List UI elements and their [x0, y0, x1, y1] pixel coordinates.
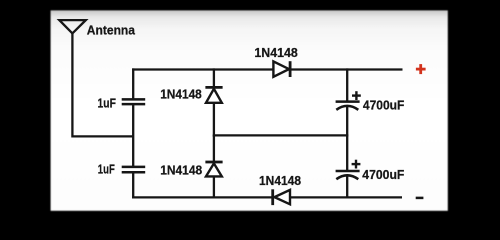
svg-text:1uF: 1uF: [98, 161, 115, 176]
capacitor C4 4700uF (polarized): [336, 160, 361, 180]
svg-text:1N4148: 1N4148: [254, 45, 297, 60]
wire bottom rail: [132, 196, 402, 198]
svg-text:Antenna: Antenna: [87, 22, 136, 37]
antenna symbol: [59, 20, 86, 33]
diode D2 1N4148 (vertical, pointing up): [205, 162, 222, 176]
minus output terminal: [416, 197, 424, 200]
svg-text:1N4148: 1N4148: [259, 173, 301, 188]
wire top rail: [132, 68, 402, 70]
diode D3 1N4148 (horizontal, pointing right, on top rail): [273, 61, 290, 77]
wire right rail bottom: [346, 176, 348, 199]
wire middle rail: [213, 134, 348, 136]
svg-text:1N4148: 1N4148: [160, 162, 202, 177]
svg-text:1uF: 1uF: [98, 96, 116, 111]
svg-text:4700uF: 4700uF: [362, 167, 404, 182]
wire left rail bottom: [132, 172, 134, 198]
wire left rail middle: [132, 104, 134, 167]
capacitor C1 1uF: [122, 99, 146, 104]
wire antenna lead: [72, 33, 133, 136]
capacitor C3 4700uF (polarized): [336, 91, 361, 110]
wire right rail middle: [346, 106, 348, 170]
wire diode D2 branch: [213, 135, 215, 198]
wire diode D1 branch: [213, 68, 215, 136]
wire right rail top: [346, 68, 348, 100]
svg-text:1N4148: 1N4148: [160, 86, 202, 101]
capacitor C2 1uF: [122, 167, 146, 172]
plus output terminal: [416, 64, 426, 74]
svg-text:4700uF: 4700uF: [363, 97, 405, 112]
diode D4 1N4148 (horizontal, pointing left, on bottom rail): [273, 189, 290, 205]
wire left rail top: [132, 68, 134, 99]
diode D1 1N4148 (vertical, pointing up): [205, 87, 222, 102]
